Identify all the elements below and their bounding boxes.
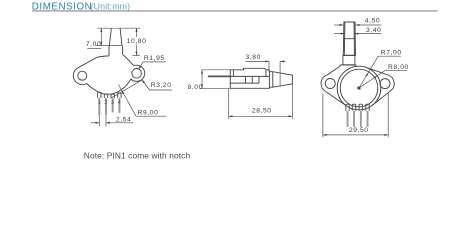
right view boss outer circle xyxy=(337,66,381,110)
right view pin 2 socket xyxy=(352,104,356,111)
ext line flange xyxy=(96,45,122,47)
pin 3 socket xyxy=(111,94,114,98)
middle view parting line xyxy=(230,75,269,77)
center dot xyxy=(358,87,361,90)
pin 1 lead xyxy=(98,98,100,116)
middle view pins (side) xyxy=(208,75,230,77)
right view right ear xyxy=(366,67,394,105)
svg-text:3: 3 xyxy=(111,100,114,106)
svg-text:R3,20: R3,20 xyxy=(151,82,172,89)
svg-text:2,54: 2,54 xyxy=(116,116,131,123)
dim 3,80 line xyxy=(246,60,269,62)
svg-text:(Unit:mm): (Unit:mm) xyxy=(91,2,131,12)
right view top ledge xyxy=(340,65,357,67)
left view port collar xyxy=(109,46,123,56)
left view port tube xyxy=(109,28,122,45)
left view body outline xyxy=(73,54,144,94)
middle view internal verticals xyxy=(233,70,266,83)
svg-text:29,50: 29,50 xyxy=(349,127,369,134)
right view pin 1 socket xyxy=(346,104,349,111)
middle view body outline xyxy=(230,68,269,88)
label R7,00 leader xyxy=(359,56,378,88)
right view left ear xyxy=(321,66,347,106)
dim 3,40 line xyxy=(334,33,344,35)
svg-text:7,00: 7,00 xyxy=(86,41,101,48)
ext line port top xyxy=(97,27,140,29)
pin 1 socket xyxy=(98,92,101,98)
svg-text:4,50: 4,50 xyxy=(365,18,380,25)
dim 4,50 line xyxy=(334,24,343,26)
dim 10,80 line xyxy=(136,28,138,37)
pin 2 socket xyxy=(104,94,107,98)
svg-text:2: 2 xyxy=(104,100,107,106)
left view left ear hole xyxy=(78,71,87,80)
right view pin 3 lead xyxy=(360,111,362,127)
pin 2 lead xyxy=(105,98,107,115)
dim 3,80 ext lines xyxy=(268,61,270,71)
svg-text:1: 1 xyxy=(98,100,101,106)
right view port collar xyxy=(343,55,355,65)
dim 2,54 line xyxy=(91,122,100,124)
svg-text:10,80: 10,80 xyxy=(127,38,147,45)
dim 2,54 ext lines xyxy=(98,116,100,127)
pin 3 lead xyxy=(112,98,114,113)
title underline xyxy=(32,10,438,11)
svg-text:Note: PIN1 come with notch: Note: PIN1 come with notch xyxy=(84,150,191,160)
svg-text:28,50: 28,50 xyxy=(252,108,272,115)
dim 8,00 ext lines xyxy=(202,69,230,71)
dim 28,50 line xyxy=(229,115,293,117)
right view inner circle R7 xyxy=(340,69,378,107)
right view port tube xyxy=(343,22,355,55)
dim 29,50 line xyxy=(323,134,388,136)
pin 4 lead xyxy=(118,98,120,113)
svg-text:R1,95: R1,95 xyxy=(144,55,165,62)
pin 4 socket xyxy=(118,93,121,98)
svg-text:3,40: 3,40 xyxy=(366,27,381,34)
dim 29,50 ext lines xyxy=(322,94,324,138)
dim 10,80 ext bottom xyxy=(132,55,140,57)
right view pin 4 socket xyxy=(366,104,369,111)
dim 8,00 line xyxy=(201,70,203,89)
label R8,00 leader xyxy=(359,70,385,88)
dim 28,50 ext lines xyxy=(228,89,230,119)
svg-text:R9,00: R9,00 xyxy=(138,110,159,117)
right view pin 2 lead xyxy=(353,111,355,127)
right view right ear hole xyxy=(380,79,390,89)
right view pin 4 lead xyxy=(367,111,369,127)
svg-text:R8,00: R8,00 xyxy=(388,64,409,71)
svg-text:8,00: 8,00 xyxy=(188,84,203,91)
svg-text:4: 4 xyxy=(118,100,121,106)
svg-text:R7,00: R7,00 xyxy=(381,50,402,57)
body edge reference line xyxy=(111,80,143,99)
dim 7,00 line xyxy=(100,28,102,45)
right view pin 3 socket xyxy=(359,104,363,111)
middle view nozzle xyxy=(269,72,292,88)
svg-text:3,80: 3,80 xyxy=(246,54,261,61)
right view pin 1 lead xyxy=(347,111,349,127)
middle view inner line xyxy=(230,82,259,84)
left view right ear hole xyxy=(132,69,142,79)
right view left ear hole xyxy=(325,79,335,89)
